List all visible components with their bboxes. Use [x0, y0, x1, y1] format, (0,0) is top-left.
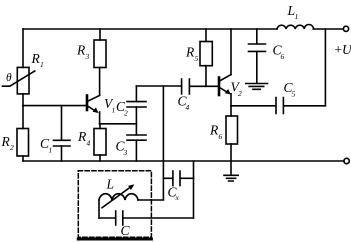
- wire C3 bottom to bottom rail: [135, 140, 137, 161]
- ground below R6: [224, 175, 238, 181]
- wire C right lead out of box: [123, 217, 194, 219]
- svg-text:6: 6: [281, 52, 285, 61]
- transistor V1 emitter diagonal with arrow: [88, 106, 97, 112]
- svg-text:5: 5: [195, 54, 199, 63]
- svg-text:R: R: [76, 43, 86, 58]
- capacitor C2 plates: [127, 102, 146, 107]
- svg-text:1: 1: [49, 146, 53, 155]
- wire node B vertical rail to C bottom wire: [193, 161, 195, 218]
- wire R3 bottom to V1 collector: [99, 68, 101, 96]
- wire node down to R2: [22, 106, 24, 129]
- resistor R3 body: [94, 40, 106, 68]
- transistor V2 collector diagonal: [220, 75, 232, 81]
- transistor V1 collector diagonal: [88, 95, 100, 101]
- svg-text:C: C: [121, 223, 131, 238]
- wire Cx right to node B vertical: [180, 177, 193, 179]
- svg-text:R: R: [31, 51, 41, 66]
- vertical wire node A (tank feed): [162, 86, 164, 200]
- resistor R3 top stub: [99, 29, 101, 40]
- resistor R1 (thermistor) body: [17, 67, 29, 94]
- dashed box (resonator): [78, 171, 151, 238]
- wire V2 emitter down: [230, 94, 232, 106]
- wire R4 bottom to bottom rail: [99, 155, 101, 161]
- wire R6 bottom through rail to ground: [230, 144, 232, 175]
- svg-text:θ: θ: [6, 72, 12, 84]
- thermistor diagonal stroke: [3, 71, 35, 86]
- wire C4 to V2 base: [190, 85, 219, 87]
- svg-text:6: 6: [219, 132, 223, 141]
- capacitor C1 bottom lead: [61, 146, 63, 161]
- svg-text:3: 3: [85, 52, 90, 61]
- wire V1 emitter down to junction: [99, 112, 101, 124]
- svg-text:2: 2: [238, 89, 242, 98]
- resistor R5 body: [200, 42, 212, 66]
- wire L left end down to C: [98, 200, 100, 218]
- capacitor C2 top lead: [135, 86, 137, 101]
- svg-text:R: R: [209, 123, 219, 138]
- svg-text:R: R: [1, 134, 11, 149]
- wire C2 bottom to C3 top: [135, 107, 137, 135]
- capacitor C6 top lead: [256, 29, 258, 44]
- wire Cx left from node A: [163, 177, 172, 179]
- wire riser to top rail after L1: [324, 29, 326, 106]
- wire emitter to C5: [231, 105, 276, 107]
- resistor R6 lead: [230, 106, 232, 116]
- wire emitter junction to C2/C3 midpoint: [100, 123, 137, 125]
- transistor V1 base bar: [86, 96, 89, 111]
- svg-text:L: L: [106, 177, 115, 192]
- resistor R2 body: [17, 129, 29, 157]
- wire C6 bottom to ground: [256, 52, 258, 83]
- capacitor C4 plates: [182, 79, 190, 94]
- resistor R5 top stub: [205, 29, 207, 42]
- wire base node horizontal to V1 base: [23, 105, 86, 107]
- inductor L1: [277, 24, 314, 29]
- svg-text:2: 2: [10, 143, 14, 152]
- inductor L (variable, in box): [99, 194, 138, 200]
- wire C left lead: [99, 217, 115, 219]
- wire R1 bottom to base node: [22, 94, 24, 106]
- arrow through L: [102, 187, 131, 208]
- wire R5 bottom to base wire: [205, 66, 207, 87]
- wire R2 bottom to bottom rail: [22, 156, 24, 161]
- svg-text:2: 2: [124, 109, 128, 118]
- wire V2 collector to top rail: [230, 29, 232, 75]
- wire top rail left segment: [23, 28, 277, 30]
- wire left vertical from top rail to R1: [22, 29, 24, 67]
- svg-text:4: 4: [186, 103, 190, 112]
- svg-text:5: 5: [292, 90, 296, 99]
- capacitor C plates: [116, 211, 123, 225]
- svg-text:R: R: [185, 45, 195, 60]
- svg-text:1: 1: [112, 106, 116, 115]
- resistor R4 body: [94, 129, 106, 156]
- capacitor C5 plates: [276, 98, 283, 114]
- svg-text:R: R: [77, 129, 87, 144]
- wire L right end to node A vertical: [138, 199, 163, 201]
- wire y86 from C2 to C4: [136, 85, 181, 87]
- capacitor C6 plates: [249, 44, 266, 51]
- capacitor C3 plates: [127, 135, 146, 140]
- wire bottom rail: [23, 160, 344, 162]
- svg-text:1: 1: [40, 60, 44, 69]
- svg-text:4: 4: [87, 139, 91, 148]
- svg-text:3: 3: [123, 148, 128, 157]
- wire C5 right to riser: [284, 105, 326, 107]
- terminal bottom right: [344, 158, 349, 163]
- wire top rail right segment after L1: [314, 28, 344, 30]
- svg-text:x: x: [175, 193, 180, 202]
- transistor V2 base bar: [218, 78, 221, 96]
- resistor R4 lead: [99, 124, 101, 129]
- capacitor C1 top lead: [61, 106, 63, 140]
- terminal +U: [343, 26, 348, 31]
- transistor V2 emitter diagonal with arrow: [220, 88, 229, 94]
- capacitor Cx plates: [173, 171, 180, 186]
- resistor R6 body: [226, 116, 238, 144]
- dashed box thick bottom edge: [78, 238, 151, 241]
- ground below C6: [246, 84, 268, 90]
- capacitor C1 plates: [54, 140, 71, 146]
- svg-text:1: 1: [295, 12, 299, 21]
- svg-text:U: U: [342, 42, 351, 57]
